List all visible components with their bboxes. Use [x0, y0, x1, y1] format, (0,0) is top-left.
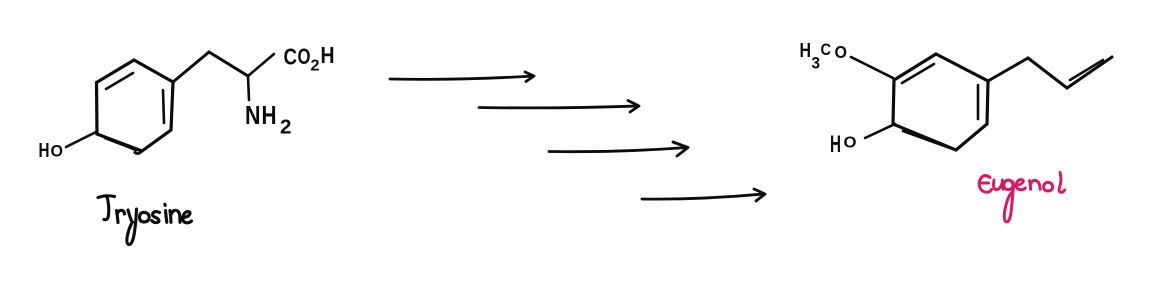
arrow 4	[642, 189, 765, 201]
svg-text:2: 2	[280, 117, 292, 139]
double bond inner line top-left (tyrosine)	[106, 73, 133, 89]
arrow 2	[479, 101, 639, 113]
bond HO-ring (eugenol)	[865, 124, 895, 138]
svg-text:O: O	[835, 42, 848, 62]
bond ring-CH2 (allyl, eugenol)	[988, 58, 1028, 81]
double bond inner line bottom (eugenol)	[903, 131, 950, 148]
arrow 3	[549, 142, 688, 156]
label CO2H (tyrosine)	[284, 42, 335, 75]
benzene ring (tyrosine)	[97, 60, 174, 151]
svg-text:O: O	[298, 44, 311, 69]
double bond inner line right (eugenol)	[977, 85, 980, 119]
arrow 1	[390, 72, 534, 82]
label Eugenol (pink handwritten)	[979, 173, 1064, 222]
label HO (tyrosine)	[39, 140, 64, 162]
svg-text:H: H	[830, 131, 841, 158]
label H3CO (eugenol)	[800, 40, 848, 73]
svg-text:H: H	[800, 40, 812, 62]
svg-text:H: H	[39, 140, 50, 162]
double bond inner line bottom (tyrosine)	[105, 138, 136, 150]
svg-text:C: C	[821, 41, 832, 59]
svg-text:H: H	[262, 100, 277, 130]
svg-text:3: 3	[812, 54, 821, 73]
bond CH=CH2 second line (allyl, eugenol)	[1070, 60, 1103, 80]
pen overshoot at bottom vertex D (tyrosine)	[135, 151, 142, 153]
bond CH-CO2H (tyrosine)	[248, 54, 274, 76]
bond CH2-CH (allyl, eugenol)	[1028, 58, 1067, 88]
double bond inner line top-left (eugenol)	[902, 64, 934, 83]
svg-text:2: 2	[311, 58, 320, 75]
svg-text:O: O	[844, 135, 857, 152]
svg-text:O: O	[51, 142, 64, 161]
bond CH-NH2 (tyrosine)	[248, 76, 249, 100]
svg-text:N: N	[245, 100, 261, 130]
label NH2 (tyrosine)	[245, 100, 292, 139]
svg-text:C: C	[284, 44, 298, 70]
double bond inner line right (tyrosine)	[163, 90, 164, 123]
label HO (eugenol)	[830, 131, 857, 158]
bond OCH3-ring (eugenol)	[851, 57, 893, 78]
bond CH2-CH (tyrosine side chain)	[209, 52, 248, 76]
svg-text:H: H	[321, 42, 335, 68]
bond CH=CH2 main line (allyl, eugenol)	[1067, 57, 1112, 88]
benzene ring (eugenol)	[893, 54, 988, 150]
bond HO-ring (tyrosine)	[66, 132, 96, 147]
label Tryosine (handwritten)	[98, 196, 192, 245]
bond ring-CH2 (tyrosine side chain)	[173, 52, 209, 82]
